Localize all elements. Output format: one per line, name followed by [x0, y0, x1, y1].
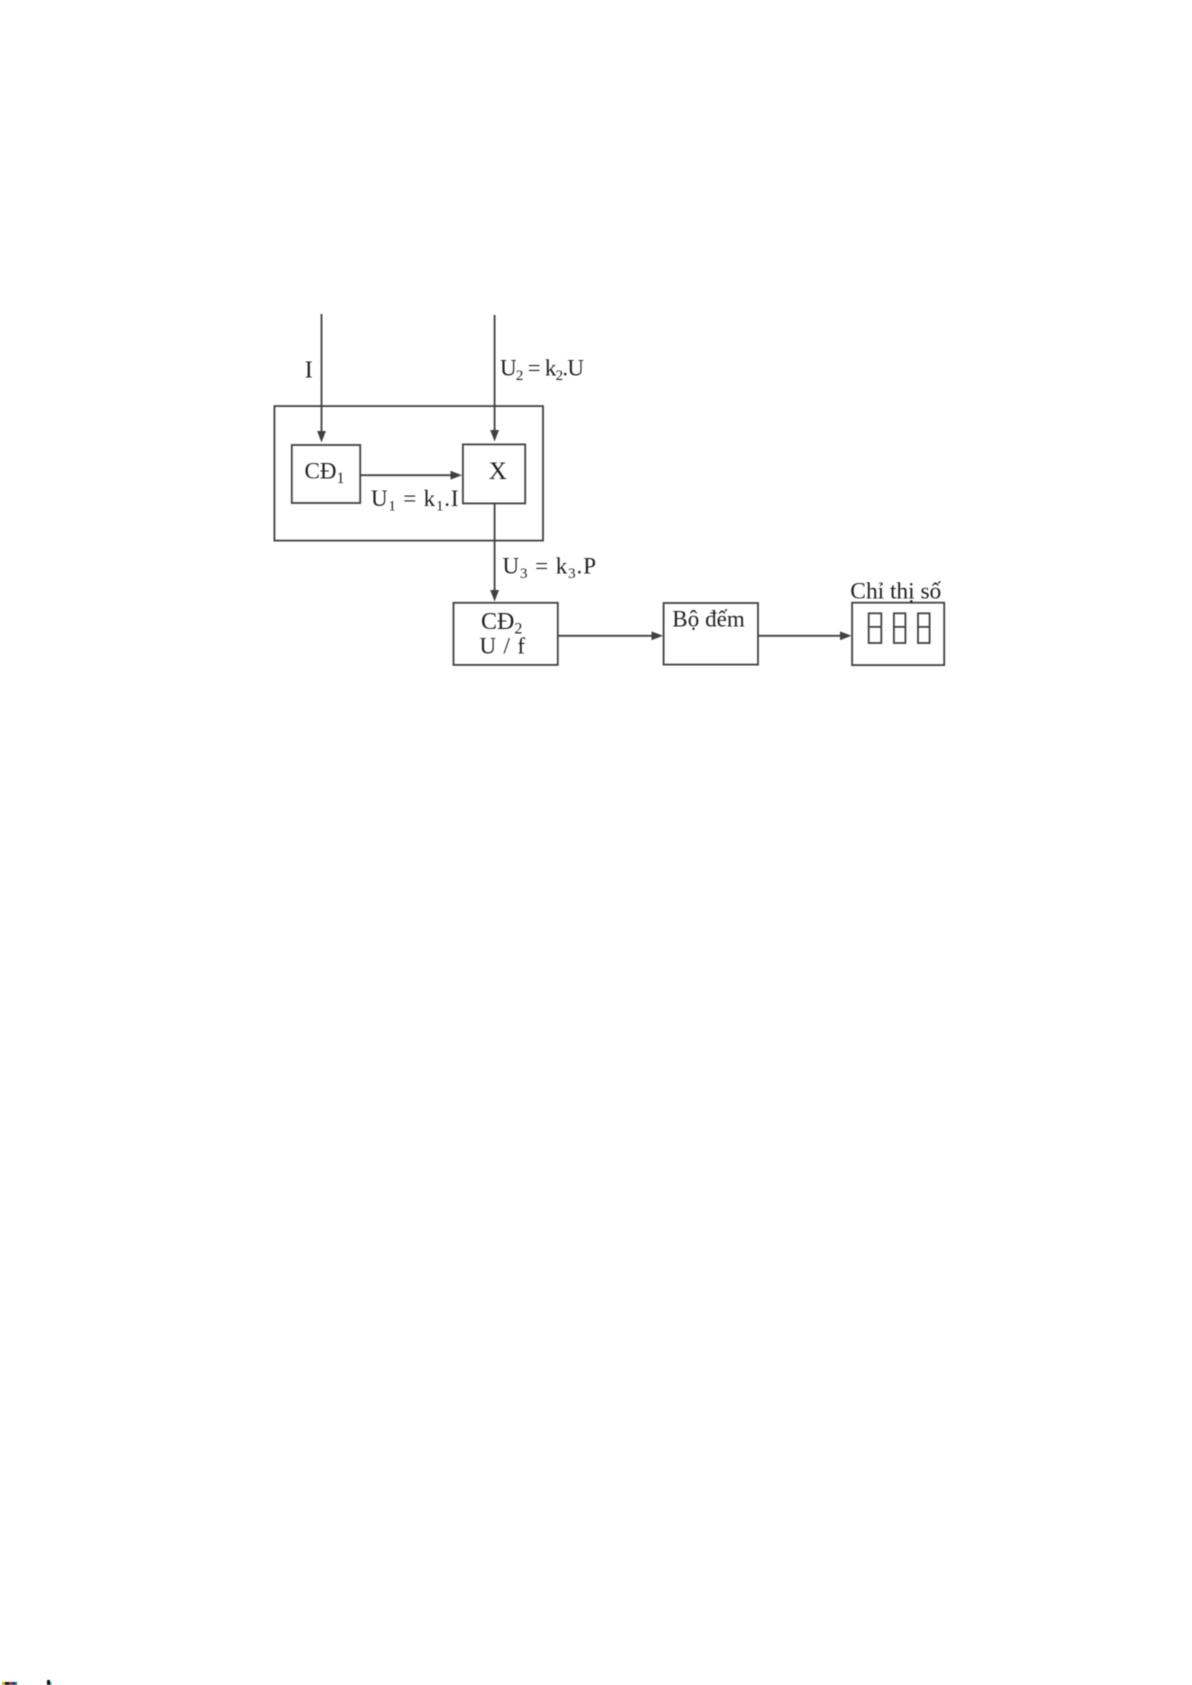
- svg-text:U3 = k3.P: U3 = k3.P: [503, 554, 597, 583]
- svg-text:CĐ1: CĐ1: [305, 459, 345, 488]
- multiplier block X: [463, 444, 525, 503]
- display digit 1: [869, 613, 882, 643]
- converter block CD1: [292, 445, 360, 503]
- display digit 2: [894, 613, 906, 643]
- wire U1 from CD1 to X horizontal arrow: [360, 471, 462, 480]
- svg-text:U2 = k2.U: U2 = k2.U: [500, 356, 584, 385]
- svg-text:U / f: U / f: [480, 634, 526, 659]
- wire from counter to display arrow: [758, 631, 852, 640]
- wire U3 from X down to CD2 arrow: [490, 503, 499, 601]
- svg-text:U1 = k1.I: U1 = k1.I: [371, 486, 459, 515]
- svg-text:Bộ đếm: Bộ đếm: [672, 607, 745, 632]
- wire from CD2 to counter arrow: [558, 631, 663, 640]
- svg-text:Chỉ thị số: Chỉ thị số: [850, 579, 941, 605]
- display digit 3: [918, 613, 930, 643]
- counter block Bo dem: [664, 603, 758, 665]
- wire input current I vertical: [317, 314, 326, 443]
- svg-text:I: I: [305, 358, 313, 384]
- outer block boundary rectangle: [274, 406, 543, 540]
- converter block CD2 U/f: [454, 603, 558, 665]
- digital display block Chi thi so: [852, 603, 944, 665]
- bottom edge cropped colored text fragment: [2, 1682, 17, 1685]
- bottom edge cropped letter ascender: [47, 1680, 52, 1685]
- wire input voltage U2 vertical: [490, 315, 499, 442]
- svg-text:X: X: [489, 458, 507, 485]
